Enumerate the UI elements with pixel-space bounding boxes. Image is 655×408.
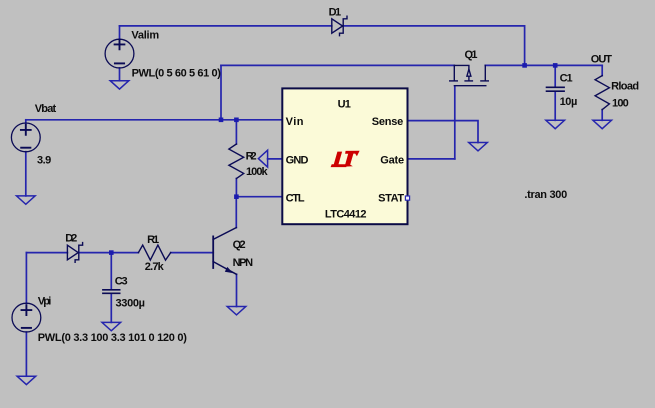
svg-text:Sense: Sense	[372, 116, 404, 128]
label Rload	[611, 81, 639, 93]
wire C1 bottom stem	[554, 92, 556, 120]
svg-text:3300µ: 3300µ	[116, 298, 146, 310]
net label OUT	[591, 54, 612, 66]
IC U1 LTC4412 box	[282, 88, 407, 224]
svg-text:PWL(0 5 60 5 61 0): PWL(0 5 60 5 61 0)	[132, 68, 222, 80]
svg-text:CTL: CTL	[286, 193, 305, 205]
resistor R2	[229, 144, 244, 179]
svg-text:STAT: STAT	[378, 193, 404, 205]
value PWL Vpi	[38, 332, 188, 344]
value 100k	[246, 166, 268, 178]
ground under Valim	[110, 81, 129, 89]
diode D1 schottky	[332, 16, 347, 36]
pin label GND	[286, 155, 309, 167]
wire Vbat rail to IC Vin	[26, 119, 283, 121]
wire Vbat bottom stub	[25, 152, 27, 196]
wire C1 top stem	[554, 65, 556, 86]
junction node C1 top	[553, 63, 558, 68]
svg-text:Valim: Valim	[131, 30, 159, 42]
svg-text:Rload: Rload	[611, 81, 639, 93]
resistor Rload	[595, 76, 609, 110]
wire corner down to Vbat rail	[220, 65, 222, 119]
wire R2 bottom lead	[235, 179, 237, 197]
capacitor C1	[547, 87, 565, 91]
label C1	[560, 73, 573, 85]
wire Q1 gate drop	[454, 86, 456, 159]
wire Rload bottom lead	[601, 110, 603, 121]
junction node R2 top	[234, 118, 239, 123]
wire CTL pin	[236, 196, 282, 198]
label Vpi	[38, 295, 52, 307]
wire Q1 drain rail to OUT corner	[485, 64, 602, 66]
label D1	[329, 7, 342, 19]
value 3300u	[116, 298, 146, 310]
voltage source Valim	[105, 39, 134, 68]
pin label Vin	[286, 116, 304, 128]
svg-text:R2: R2	[246, 151, 257, 163]
svg-text:U1: U1	[338, 98, 351, 110]
wire Valim bottom stub	[119, 68, 121, 81]
label Valim	[131, 30, 159, 42]
wire Gate pin to gate drop	[408, 158, 455, 160]
svg-text:LTC4412: LTC4412	[325, 209, 367, 221]
ground under C1	[546, 120, 565, 128]
svg-text:Gate: Gate	[380, 155, 404, 167]
value NPN	[233, 257, 254, 269]
ground at IC GND pin rotated left	[258, 150, 282, 167]
pin label STAT	[378, 193, 404, 205]
svg-text:D1: D1	[329, 7, 342, 19]
wire D1 cathode to corner	[343, 26, 524, 66]
svg-text:2.7k: 2.7k	[145, 261, 165, 273]
wire C3 bottom stem	[110, 294, 112, 322]
capacitor C3	[103, 290, 120, 294]
pin label Gate	[380, 155, 404, 167]
wire Q2 collector vertical	[235, 197, 237, 228]
diode D2 schottky	[67, 243, 82, 263]
label Q1	[465, 49, 478, 61]
junction node D1 to OUT rail	[522, 63, 527, 68]
svg-text:D2: D2	[65, 232, 77, 244]
voltage source Vpi	[12, 303, 41, 332]
wire Vpi bottom stub	[25, 332, 27, 376]
svg-text:GND: GND	[286, 155, 309, 167]
wire Vbat top stub	[25, 120, 27, 123]
svg-text:Vpi: Vpi	[38, 295, 52, 307]
svg-text:10µ: 10µ	[560, 96, 578, 108]
wire Q2 emitter vertical	[236, 274, 238, 306]
svg-text:Q2: Q2	[233, 239, 246, 251]
wire Sense pin to ground	[408, 121, 479, 143]
label R2	[246, 151, 257, 163]
transistor Q2 emitter arrow	[225, 267, 233, 273]
part number LTC4412	[325, 209, 367, 221]
ground under Sense wire	[469, 143, 488, 151]
LT logo	[331, 151, 360, 167]
resistor R1	[138, 245, 170, 260]
label Q2	[233, 239, 246, 251]
value 100	[612, 98, 629, 110]
label C3	[115, 276, 128, 288]
wire R1 to Q2 base	[171, 252, 214, 254]
ground under Vbat	[17, 196, 36, 204]
wire Q1 source rail from corner x221	[221, 64, 454, 66]
svg-text:.tran 300: .tran 300	[524, 189, 567, 201]
value 3.9	[37, 154, 51, 166]
ground under C3	[102, 322, 121, 330]
junction node Vbat-Valim corner	[219, 118, 224, 123]
wire bottom rail Vpi to D2	[26, 252, 67, 254]
ground under Rload	[593, 120, 612, 128]
svg-text:100k: 100k	[246, 166, 268, 178]
value 10u	[560, 96, 578, 108]
junction node C3 top	[109, 250, 114, 255]
ground under Q2 emitter	[227, 307, 246, 315]
wire D2 cathode to R1	[79, 252, 139, 254]
wire Rload top lead	[601, 65, 603, 75]
svg-text:NPN: NPN	[233, 257, 254, 269]
mosfet Q1 pmos	[450, 65, 489, 85]
ground under Vpi	[17, 376, 36, 384]
svg-text:3.9: 3.9	[37, 154, 51, 166]
svg-text:C1: C1	[560, 73, 573, 85]
label D2	[65, 232, 77, 244]
svg-text:100: 100	[612, 98, 629, 110]
svg-text:Vin: Vin	[286, 116, 304, 128]
label Vbat	[35, 103, 57, 115]
svg-text:R1: R1	[147, 234, 159, 246]
svg-text:PWL(0 3.3 100 3.3 101 0 120 0): PWL(0 3.3 100 3.3 101 0 120 0)	[38, 332, 188, 344]
wire Valim top stub	[119, 26, 121, 40]
svg-text:C3: C3	[115, 276, 128, 288]
junction node R2 bottom / CTL	[234, 194, 239, 199]
wire R2 top lead	[235, 120, 237, 144]
pin label Sense	[372, 116, 404, 128]
transistor Q2 npn	[213, 228, 236, 275]
wire Vpi top stub	[25, 253, 27, 304]
pin STAT open square	[405, 196, 409, 200]
label R1	[147, 234, 159, 246]
pin label CTL	[286, 193, 305, 205]
label U1	[338, 98, 351, 110]
value PWL Valim	[132, 68, 222, 80]
voltage source Vbat	[11, 123, 40, 152]
directive .tran 300	[524, 189, 567, 201]
value 2.7k	[145, 261, 165, 273]
svg-text:OUT: OUT	[591, 54, 612, 66]
svg-text:Q1: Q1	[465, 49, 478, 61]
wire C3 top stem	[110, 253, 112, 289]
wire top rail Valim to D1 anode	[120, 25, 332, 27]
svg-text:Vbat: Vbat	[35, 103, 57, 115]
